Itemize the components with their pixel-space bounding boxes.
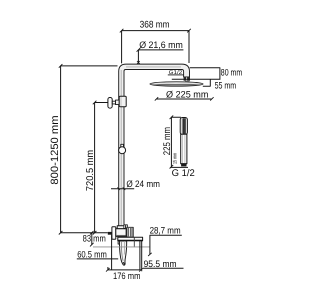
svg-text:Ø 21,6 mm: Ø 21,6 mm — [139, 39, 183, 50]
wire: 55mm bracket — [203, 79, 211, 86]
svg-text:15 mm: 15 mm — [172, 153, 178, 164]
wire: 800-1250 dimension — [59, 64, 118, 234]
wire: bottom extension from left dims — [61, 232, 108, 234]
wire: faucet front extensions — [140, 241, 142, 271]
diverter connector — [112, 101, 115, 104]
wire: 80mm bracket — [172, 68, 221, 80]
wire: 176mm dimension line — [106, 267, 143, 272]
svg-text:55 mm: 55 mm — [215, 79, 237, 90]
hand shower head — [180, 118, 187, 135]
hand shower connector — [181, 163, 186, 166]
svg-text:368 mm: 368 mm — [140, 19, 170, 30]
svg-text:800-1250 mm: 800-1250 mm — [49, 115, 61, 184]
diverter knob — [108, 98, 112, 109]
svg-text:95.5 mm: 95.5 mm — [144, 258, 177, 269]
hand shower dimension line 225mm — [170, 116, 188, 169]
svg-text:Ø 225 mm: Ø 225 mm — [166, 89, 209, 100]
svg-text:720.5 mm: 720.5 mm — [85, 150, 96, 191]
diverter body — [119, 96, 126, 106]
slider holder nub — [121, 144, 124, 147]
svg-text:60.5 mm: 60.5 mm — [77, 249, 107, 260]
wire: G1/2 underline — [168, 74, 184, 76]
spout — [118, 241, 122, 244]
wire: gray centerline of spout outlet — [93, 246, 150, 248]
wire: diameter 21,6 leader — [137, 48, 184, 64]
wire: 28,7mm leader — [148, 235, 182, 256]
svg-text:Ø 24 mm: Ø 24 mm — [126, 178, 160, 189]
overhead shower head ellipse — [150, 82, 203, 86]
wall stub black — [108, 232, 112, 235]
hand shower handle — [181, 134, 187, 164]
faucet body — [116, 229, 127, 237]
svg-text:176 mm: 176 mm — [113, 270, 141, 281]
connector of overhead shower — [184, 77, 190, 81]
faucet handle — [127, 227, 133, 237]
svg-text:G 1/2: G 1/2 — [172, 168, 195, 179]
svg-text:28,7 mm: 28,7 mm — [150, 225, 181, 236]
wire: diameter 225 dimension line — [155, 97, 214, 100]
wire: handle edge extension — [133, 237, 135, 247]
wire: diameter 24 leader — [111, 188, 134, 190]
svg-text:80 mm: 80 mm — [221, 67, 243, 78]
wire: wall extension to bottom — [111, 235, 113, 270]
pipe: riser and top arm — [119, 64, 190, 227]
svg-text:83 mm: 83 mm — [83, 233, 106, 244]
faucet adapter below riser — [117, 226, 124, 229]
wire: 60.5mm leader — [77, 258, 118, 260]
svg-text:225 mm: 225 mm — [162, 127, 173, 155]
slider holder circle — [119, 147, 126, 154]
wire: 368mm dimension line — [120, 29, 191, 64]
wall flange — [112, 227, 116, 240]
spout mount plate — [118, 237, 143, 241]
pipe shading line — [120, 70, 122, 226]
wire: 95.5mm leader — [143, 267, 184, 269]
wire: 83mm dimension — [90, 231, 94, 247]
